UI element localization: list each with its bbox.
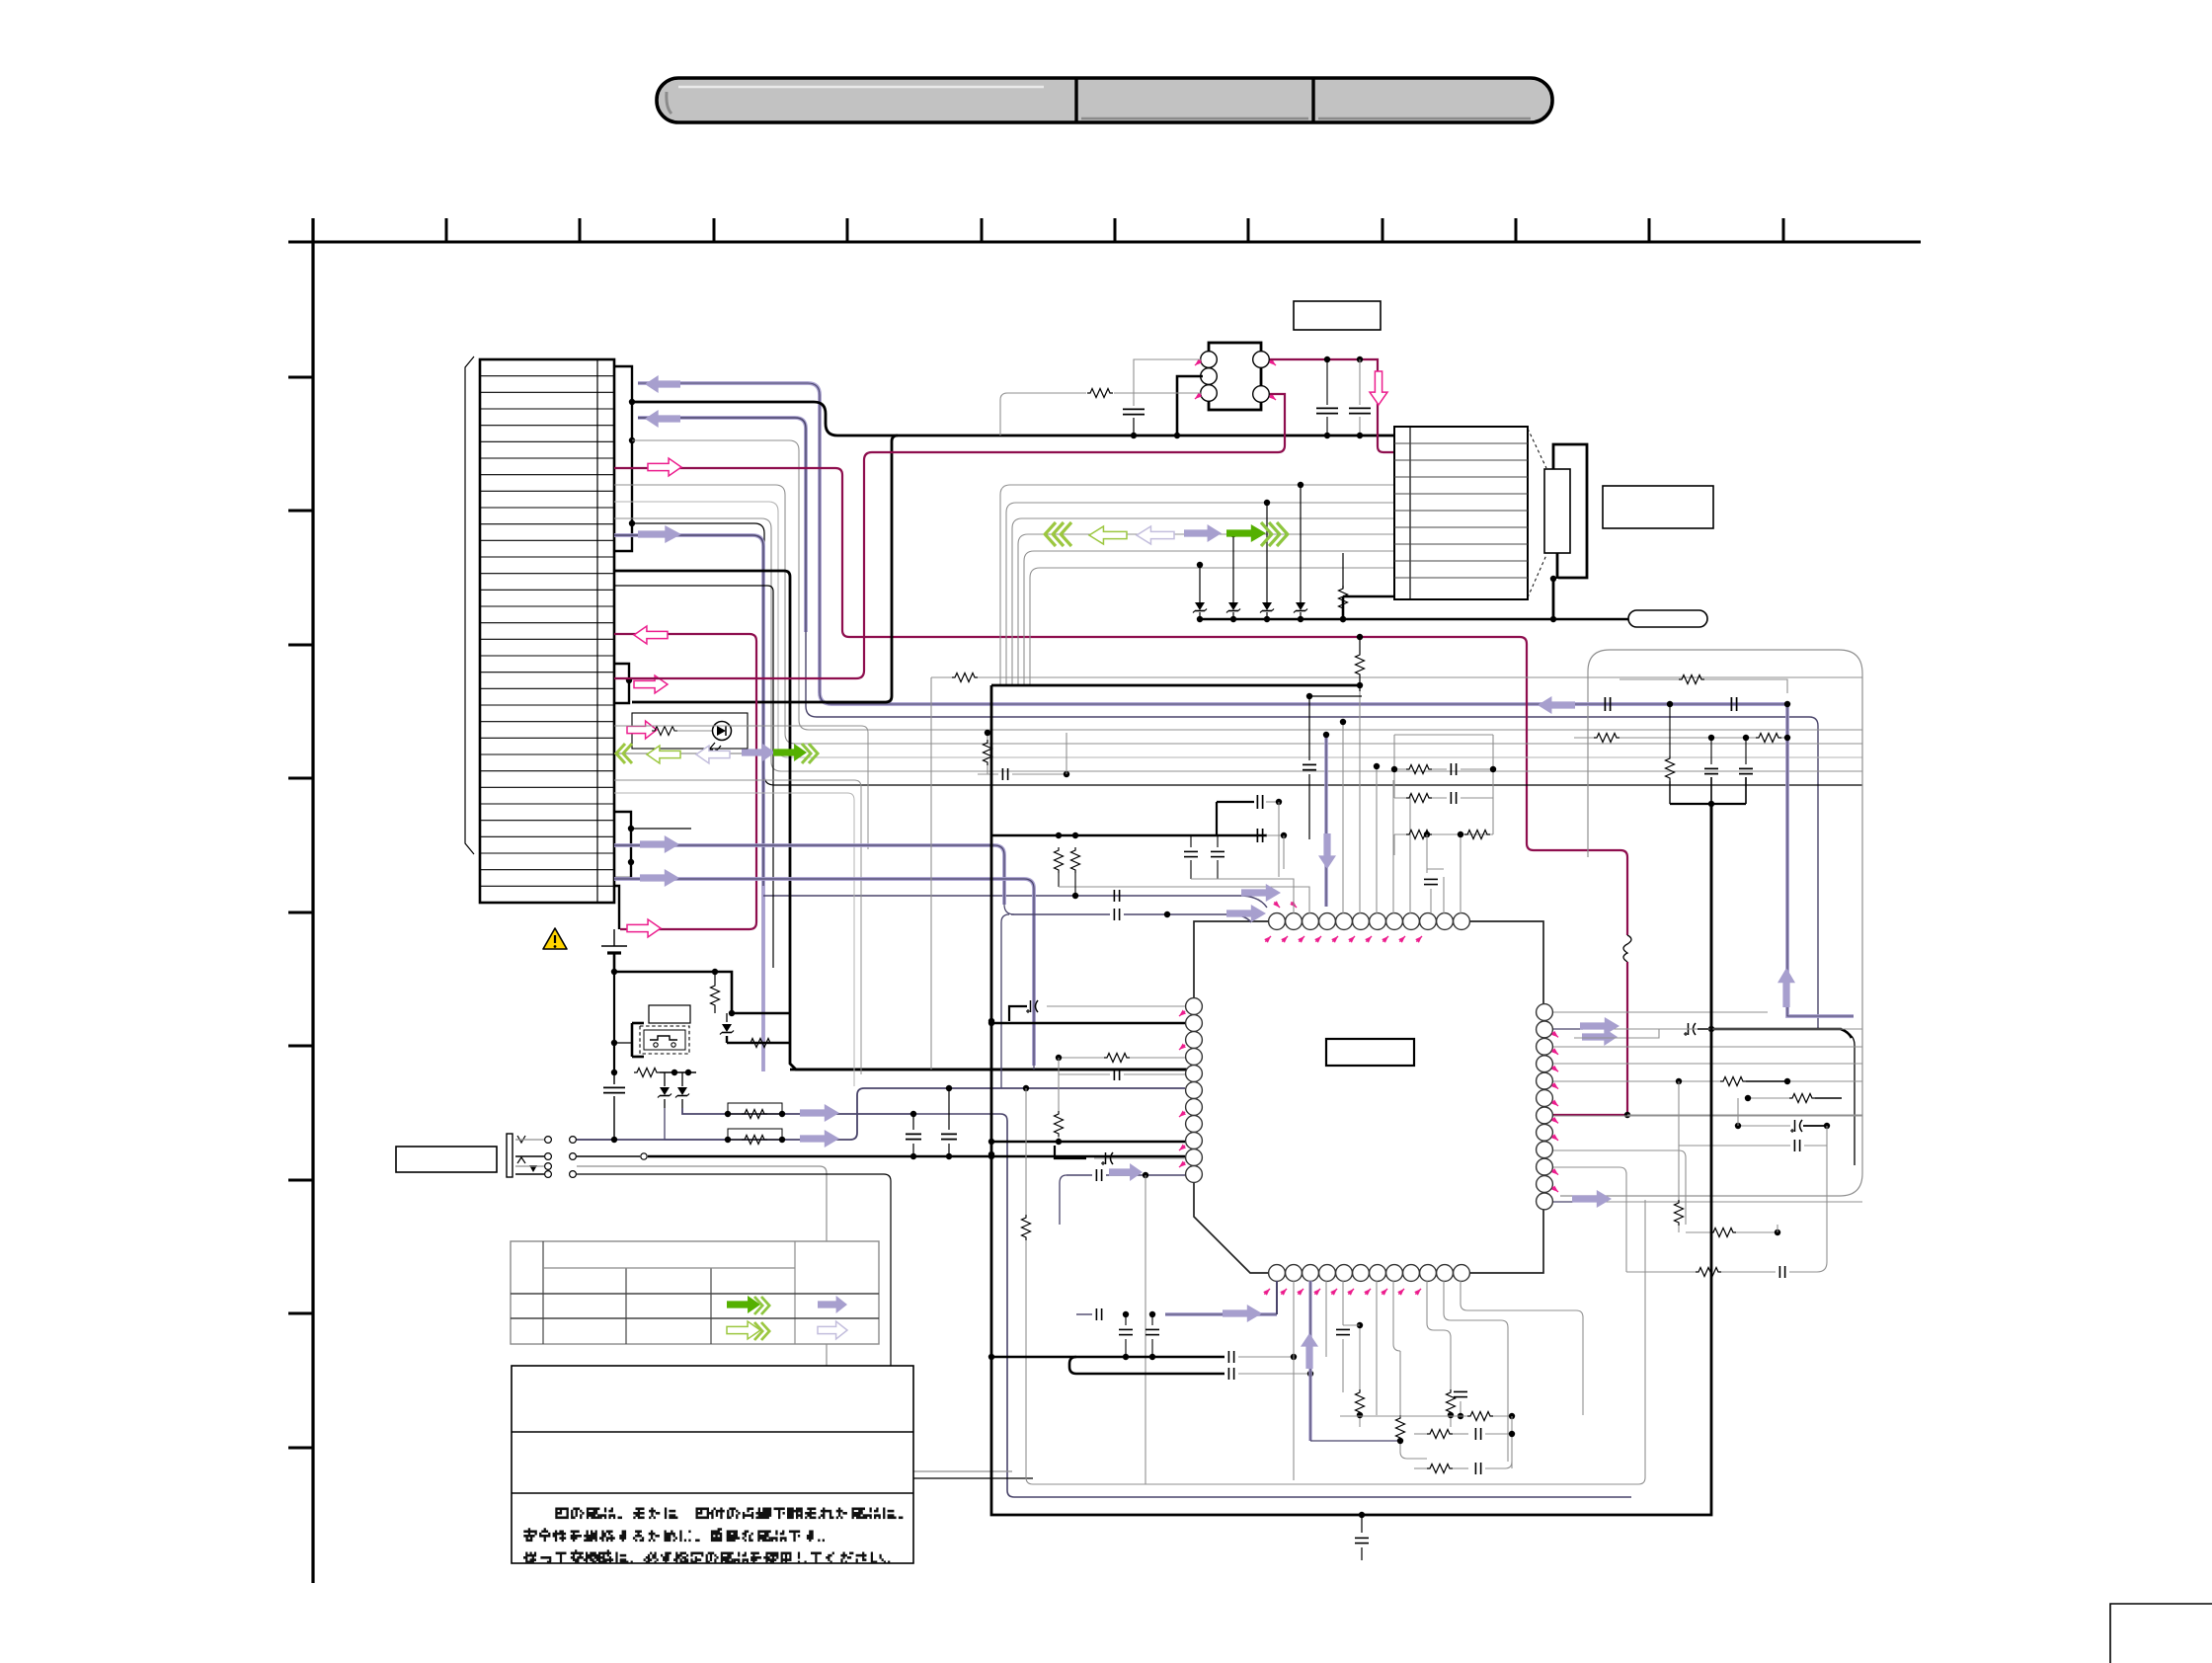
resistor R60: [1676, 1075, 1790, 1087]
connector pin stub bottom: [614, 886, 619, 929]
wire lavender row 26: [614, 845, 1014, 914]
signal arrow (lavender, right) row28: [640, 869, 679, 887]
legend arrow lavender filled: [818, 1296, 847, 1313]
capacitor C43 (vertical): [1191, 835, 1294, 913]
capacitor C61: [1679, 1098, 1827, 1151]
resistor R73 + capacitor C75 row: [1400, 1428, 1515, 1459]
wire motor feed 4: [1018, 534, 1394, 685]
resistor R11: [748, 1039, 773, 1048]
capacitor C22: [1349, 359, 1371, 438]
wire gray into arrow: [1574, 1029, 1659, 1038]
signal arrow (lavender right) to pin row: [1241, 884, 1281, 902]
head block bracket thick: [1550, 444, 1587, 619]
wire gray drop 4: [1298, 482, 1303, 602]
wire crimson row 5 to right side: [614, 468, 1627, 935]
capacitor C74 (vertical): [1454, 1391, 1467, 1419]
wire black thick row 2 to top bus: [632, 402, 1394, 436]
label box (drum): [1603, 486, 1713, 528]
wire vertical black thick mid: [632, 436, 898, 702]
wire gray bundle row 11: [614, 726, 868, 849]
signal arrow (lavender right) pin11: [1109, 1163, 1143, 1181]
signal arrow (lavender, right) row26: [640, 835, 679, 853]
signal arrow (pink outline) battery net: [627, 919, 661, 937]
wire gray mid row: [931, 677, 1862, 1069]
LED D1: [709, 722, 732, 752]
diode D2: [720, 1013, 790, 1043]
signal arrow (lavender, left) row1: [645, 375, 680, 393]
wire gray bundle row 12: [614, 780, 861, 1074]
connector pin stub group C: [614, 812, 634, 878]
resistor R32 (vertical): [1666, 704, 1675, 804]
signal arrow (lavender right) navy upper: [800, 1104, 839, 1122]
border frame top ruler: [288, 218, 1921, 242]
wire rounded bus top right: [1560, 650, 1862, 1196]
resistor R64 + capacitor C62: [1626, 1146, 1827, 1278]
capacitor C45 row with lavender arrow: [1011, 909, 1251, 922]
capacitor C32 (vertical): [1704, 738, 1718, 804]
wire lavender drop to pin 4: [1323, 732, 1329, 907]
wire motor feed 5: [1024, 551, 1394, 685]
border frame left ruler: [288, 218, 313, 1583]
wire gray CN2 bottom-left with resistor: [1000, 387, 1201, 436]
capacitor C30: [1605, 697, 1673, 711]
wire jack tip stub: [611, 1137, 617, 1143]
connector CN2 (4-pin): [1193, 343, 1277, 410]
signal arrow (pink outline) LED row: [627, 721, 657, 739]
wire lavender bottom pin3: [1308, 1281, 1311, 1441]
resistor R72 (vertical): [1447, 1387, 1456, 1427]
wire black thick frame upper: [614, 571, 1194, 1069]
warning symbol (triangle): [543, 928, 567, 949]
wire gray CN2 top-left: [1134, 359, 1201, 406]
capacitor C70: [1076, 1308, 1129, 1320]
capacitor C12: [941, 1088, 957, 1159]
wire black row 25: [631, 828, 691, 830]
signal arrow (lavender right) navy lower: [800, 1130, 839, 1148]
capacitor C20: [1123, 409, 1145, 438]
signal arrow (lavender down) pin4: [1318, 833, 1336, 869]
wire lavender bus row 1: [638, 383, 1785, 704]
resistor R14 loop: [725, 1129, 785, 1145]
resistor R45 (vertical on bus): [1356, 634, 1365, 685]
LED D1 subcircuit box: [632, 713, 748, 749]
wire motor feed 6: [1030, 568, 1394, 685]
capacitor C50 (polarized) pin1: [1009, 1000, 1185, 1021]
diode D8: [1294, 602, 1307, 622]
IC U1 bottom pins: [1263, 1265, 1470, 1297]
wire bottom row net: [1310, 1412, 1515, 1469]
connector CN1 bracket: [465, 356, 474, 854]
wire gray drop 1: [1197, 562, 1203, 602]
wire jack sleeve: [577, 1174, 1033, 1478]
resistor stack right of IC top: [1391, 735, 1496, 913]
capacitor C46: [978, 733, 1069, 780]
capacitor C72 (vertical): [1145, 1311, 1159, 1360]
signal arrow (pink outline, down): [1370, 371, 1387, 405]
wire lavender row 10 to right: [614, 535, 1267, 1071]
resistor R-LED: [652, 727, 677, 736]
wire gray row 4: [632, 440, 1862, 730]
capacitor C34 (polarized): [1659, 1023, 1714, 1036]
capacitor C11: [906, 1114, 921, 1159]
capacitor C71 (vertical): [1119, 1314, 1133, 1357]
capacitor C44 row with lavender arrow: [1072, 890, 1120, 902]
signal arrow (lavender right) to pin row 2: [1226, 905, 1266, 922]
resistor R12: [634, 1069, 696, 1077]
wire black thin inner: [614, 586, 773, 968]
wire thick pin2: [988, 1020, 1185, 1026]
connector CN1 body: [480, 359, 614, 903]
capacitor C53 pin11 with arrow: [1060, 1169, 1185, 1225]
capacitor C42 (vertical): [1184, 835, 1198, 879]
wire navy pair lower (jack tip): [577, 1085, 1185, 1140]
capacitor C52 (polarized) pin9: [1055, 1146, 1185, 1165]
capacitor C21: [1316, 359, 1338, 438]
wire motor feed 1: [1000, 485, 1394, 685]
signal arrow (pink outline) row B: [634, 626, 668, 644]
wire motor feed 3: [1012, 518, 1394, 685]
capacitor C47 (vertical): [1303, 693, 1362, 839]
wire switch to resistor row: [611, 972, 632, 1075]
IC U1 left pins: [1177, 998, 1202, 1183]
inductor L1: [1553, 935, 1862, 1118]
resistor R13 loop: [725, 1103, 785, 1119]
signal arrow (lavender right) right lower: [1553, 1190, 1612, 1208]
head block: [1544, 469, 1570, 553]
wire black thick bus (IC top feed): [991, 682, 1363, 691]
IC U1 top pins: [1264, 901, 1470, 944]
wire gray drop to bottom: [1026, 1088, 1145, 1484]
wire bus to drum bottom: [1343, 595, 1394, 598]
label box (jack): [396, 1147, 497, 1172]
resistor R71 (vertical): [1396, 1415, 1405, 1452]
resistor R10 (vertical): [711, 969, 720, 1013]
resistor R52 (vertical): [1055, 1074, 1064, 1142]
wire crimson row C: [0, 0, 1, 1]
wire right pins to right bus: [1553, 1012, 1862, 1272]
legend arrow green outline: [727, 1321, 769, 1340]
wire lavender row 28: [614, 879, 1034, 1069]
resistor R42 (vertical): [1071, 847, 1080, 896]
capacitor C77 below bus: [1355, 1512, 1369, 1560]
signal arrow (pink outline) row5: [648, 458, 681, 476]
signal arrow (lavender up) right net: [1777, 968, 1795, 1007]
diode D5: [1193, 602, 1207, 622]
capacitor C10 (battery): [577, 1072, 625, 1140]
connector pin stub group A: [614, 366, 635, 551]
wire black thick top-left of IC: [992, 832, 1267, 838]
connector pin stub group B: [614, 664, 632, 703]
wire pin3 drop: [1279, 802, 1284, 877]
wire navy riser: [1001, 914, 1009, 1088]
wire gray row 8: [614, 518, 1862, 771]
legend table: [511, 1241, 879, 1344]
diode D4: [675, 1072, 689, 1108]
wire crimson CN2 right top: [1270, 356, 1394, 452]
wire gray drop 3: [1264, 500, 1270, 602]
signal arrow (pink outline) row C: [634, 675, 668, 693]
wire to LED: [677, 730, 713, 732]
title bar pill: [657, 78, 1552, 122]
wire motor feed 2: [1006, 503, 1394, 685]
battery B1: [601, 929, 627, 972]
drum block M1: [1394, 427, 1528, 599]
wire navy pair upper: [682, 1108, 1631, 1497]
wire jack ring (thick bus): [577, 1153, 1185, 1159]
wire rounded corner left: [1588, 650, 1610, 857]
wire bottom pin drops: [1294, 1281, 1583, 1480]
legend arrow green filled: [727, 1296, 769, 1314]
IC U1 label box: [1326, 1039, 1414, 1066]
resistor R74 + capacitor C76 row: [1407, 1459, 1512, 1474]
resistor R31 row: [1574, 734, 1790, 743]
wire lavender right net: [1574, 704, 1854, 1016]
wire gray row 6: [614, 485, 1862, 744]
wire black row 9: [632, 523, 1862, 785]
wire black thick bottom row1: [991, 1351, 1297, 1363]
signal arrow (lavender, right) row10: [638, 525, 681, 543]
wire battery net thick: [611, 969, 790, 1016]
jack J1: [507, 1134, 576, 1177]
diode D3: [658, 1072, 728, 1140]
notes text (safety notice): [523, 1508, 903, 1564]
signal arrow (lavender right) bottom1: [1223, 1305, 1262, 1322]
switch S1 with dashed protect box: [632, 1023, 689, 1057]
signal arrow (lavender left) right net: [1538, 696, 1575, 714]
wire black thick bottom row2: [1069, 1357, 1313, 1380]
wire gray drop 2: [1230, 531, 1236, 602]
resistor R70 (vertical): [1343, 1322, 1365, 1427]
wire thick pin8: [988, 1139, 1185, 1145]
capacitor C60 (polarized): [1735, 1120, 1830, 1133]
drum dashed couplings: [1528, 429, 1546, 597]
wire ground bracket: [1670, 801, 1746, 1029]
capacitor C48 (vertical): [1424, 869, 1438, 913]
capacitor C41: [1257, 829, 1287, 842]
capacitor C73 (vertical): [1336, 1329, 1350, 1392]
wire gray row 7: [614, 502, 1862, 757]
connector pill (FFC): [1628, 610, 1707, 627]
diode D7: [1260, 602, 1274, 622]
label box (switch): [649, 1005, 690, 1023]
capacitor C33 (vertical): [1739, 738, 1753, 804]
resistor R43 (vertical): [984, 730, 992, 774]
section box (thick black): [988, 685, 1711, 1515]
resistor R41 (vertical): [1055, 847, 1310, 913]
resistor R63: [1686, 1225, 1780, 1237]
wire black thick right descend: [1711, 1029, 1855, 1165]
wire nested bottom line 2 (inner gray rect): [1145, 1200, 1645, 1484]
IC U1 right pins: [1537, 1004, 1560, 1210]
resistor R62 (vertical): [1675, 1081, 1684, 1232]
wire lavender bottom feed: [1165, 1281, 1277, 1314]
label box (top): [1294, 301, 1381, 330]
wire black bottom bus (diode row): [1200, 596, 1628, 622]
resistor R61: [1745, 1094, 1842, 1103]
capacitor C31: [1731, 697, 1790, 711]
wire black CN2 mid: [1174, 376, 1203, 438]
signal arrow (lavender right) right pin2: [1553, 1017, 1619, 1035]
legend arrow white outline: [818, 1321, 847, 1339]
signal arrow group (green+white+lavender) left: [614, 744, 818, 763]
title block corner box: [2110, 1604, 2212, 1663]
resistor R30: [1619, 675, 1787, 694]
resistor R44: [952, 673, 978, 682]
IC U1 outline: [1194, 921, 1543, 1273]
signal arrow (lavender, left) row3: [645, 410, 680, 428]
resistor R51 pin4: [1056, 1054, 1185, 1063]
signal arrow (lavender right) lower right: [1582, 1028, 1618, 1046]
notes box: [512, 1366, 913, 1563]
signal arrow (lavender up) bottom pin3: [1301, 1333, 1318, 1369]
wire crimson CN2 right bottom: [614, 394, 1285, 678]
capacitor C40: [1217, 795, 1282, 835]
wire crimson row B (to battery net): [614, 634, 756, 929]
wire pin drops from bundle: [1340, 685, 1410, 913]
resistor R20 (vertical): [1339, 553, 1348, 622]
resistor R15 (vertical): [1022, 1215, 1146, 1484]
signal arrow group near drum: [1045, 522, 1288, 546]
wire jack ring2 gray: [577, 1166, 1012, 1471]
capacitor C51 pin5: [1059, 1058, 1185, 1080]
wire gray bundle row 13: [614, 793, 854, 1086]
diode D6: [1226, 602, 1240, 622]
wire lavender bus row 3: [638, 418, 1818, 1029]
